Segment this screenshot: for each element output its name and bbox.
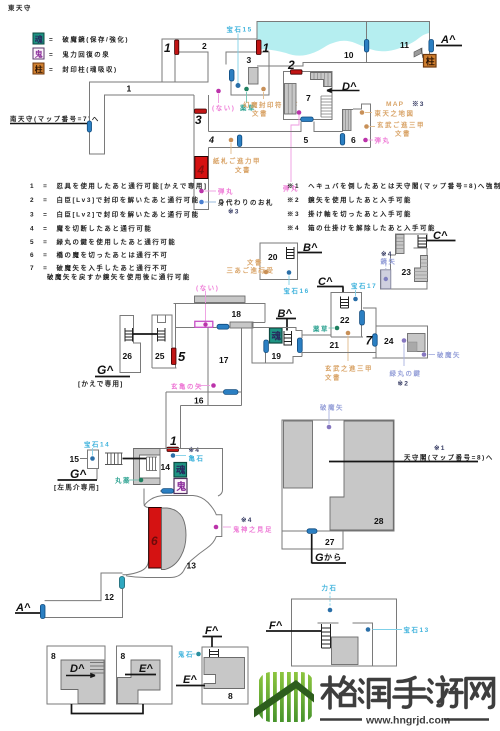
- svg-text:6 = 橋の魔を切ったあとは通行不可: 6 = 橋の魔を切ったあとは通行不可: [30, 250, 168, 259]
- room 25 small box: [158, 315, 166, 323]
- legend list left: [30, 181, 208, 281]
- legend box 鬼: [33, 48, 44, 59]
- flag icon near 柱: [414, 48, 422, 57]
- room 23 walls: [381, 234, 428, 289]
- svg-text:魂: 魂: [176, 465, 186, 477]
- gray block F room: [332, 637, 359, 665]
- svg-text:11: 11: [400, 40, 409, 50]
- svg-text:D^: D^: [70, 663, 85, 675]
- door blue 11 east: [429, 40, 434, 53]
- door blue room16: [224, 390, 239, 395]
- svg-text:身代わりのお札: 身代わりのお札: [218, 198, 274, 207]
- legend list right: [287, 181, 500, 232]
- chest block room24: [408, 334, 426, 352]
- svg-text:※2: ※2: [398, 380, 410, 388]
- svg-text:玄武之進三甲: 玄武之進三甲: [325, 364, 373, 373]
- door teal room13 left: [120, 577, 125, 589]
- watermark roof shape: [254, 680, 314, 718]
- svg-text:弾丸: 弾丸: [218, 187, 234, 196]
- bridge line 26-25: [133, 333, 157, 335]
- stairs ladder room8 F: [210, 649, 219, 660]
- door red 1 room14: [167, 447, 179, 451]
- svg-text:※4: ※4: [189, 446, 201, 454]
- door blue south exit: [87, 121, 91, 132]
- water pool rooms 10 11: [257, 22, 429, 56]
- svg-text:16: 16: [194, 396, 204, 406]
- bridge ladder 15-14: [105, 453, 123, 465]
- corridor 1 walls: [90, 39, 258, 100]
- doc dot room3: [261, 87, 266, 92]
- stairs ladder room22: [341, 297, 349, 309]
- ladder in C block: [147, 457, 158, 471]
- door blue room18 row: [217, 324, 229, 329]
- svg-text:6: 6: [151, 534, 158, 548]
- soul box room14: [174, 463, 187, 478]
- room 28 outer walls: [282, 420, 394, 549]
- room 3 walls: [226, 52, 269, 95]
- bullet dot room6: [363, 138, 368, 143]
- svg-text:3: 3: [247, 55, 252, 65]
- svg-text:= 破魔鏡(保存/強化): = 破魔鏡(保存/強化): [49, 35, 129, 44]
- svg-text:東天守: 東天守: [8, 3, 32, 12]
- svg-text:宝石15: 宝石15: [227, 25, 253, 34]
- door red 1 right: [256, 40, 261, 55]
- mirror arrow box room23: [381, 270, 391, 289]
- svg-text:A^: A^: [440, 34, 456, 46]
- svg-text:10: 10: [344, 50, 354, 60]
- svg-text:[かえで専用]: [かえで専用]: [78, 379, 124, 388]
- stair bar left room7: [285, 84, 297, 115]
- stairs ladder room25: [158, 328, 166, 342]
- F room inner walls: [318, 623, 374, 666]
- svg-text:鬼: 鬼: [176, 480, 186, 493]
- svg-text:鬼: 鬼: [35, 49, 43, 59]
- wall right edge C block: [159, 455, 161, 478]
- room 26 walls: [120, 316, 141, 373]
- svg-text:柱: 柱: [35, 64, 43, 74]
- stair bar room18 row: [230, 322, 253, 328]
- exit G^ samanosuke: [96, 469, 98, 480]
- svg-text:紙札ご進力甲: 紙札ご進力甲: [213, 156, 261, 165]
- stone dot room14: [171, 453, 176, 458]
- gray block right room28: [330, 421, 393, 530]
- staircase rungs room7: [321, 96, 332, 117]
- svg-text:※2 鏡矢を使用したあと入手可能: ※2 鏡矢を使用したあと入手可能: [287, 195, 412, 204]
- doc dot room20: [264, 270, 269, 275]
- svg-text:G^: G^: [70, 467, 86, 481]
- room 17 walls: [176, 304, 242, 406]
- svg-text:鏡矢: 鏡矢: [381, 257, 397, 266]
- dot ない room3: [216, 89, 221, 94]
- stairs hatch room8 D: [90, 663, 105, 674]
- room 13 blob outline east: [144, 496, 222, 572]
- corridor to south exit walls: [90, 100, 105, 154]
- key dot room24: [402, 338, 407, 343]
- F room outer walls: [292, 599, 397, 666]
- door blue room19 left: [264, 340, 269, 353]
- svg-text:※3 掛け軸を切ったあと入手可能: ※3 掛け軸を切ったあと入手可能: [287, 209, 412, 218]
- door blue room3: [229, 70, 234, 82]
- connector bracket rooms D-E: [72, 704, 144, 714]
- svg-text:3 = 白臣[Lv2]で封印を解いたあと通行可能: 3 = 白臣[Lv2]で封印を解いたあと通行可能: [30, 210, 200, 219]
- watermark char 润: [360, 680, 390, 708]
- svg-text:文書: 文書: [247, 258, 263, 267]
- svg-text:E^: E^: [183, 674, 197, 686]
- watermark char 网: [466, 679, 494, 708]
- room 14 walls: [160, 449, 223, 497]
- svg-text:8: 8: [121, 651, 126, 661]
- svg-text:薬草: 薬草: [312, 324, 329, 333]
- svg-text:= 封印柱(魂吸収): = 封印柱(魂吸収): [49, 65, 118, 74]
- stair bar room 6: [343, 110, 351, 131]
- svg-text:南天守(マップ番号=7)へ: 南天守(マップ番号=7)へ: [10, 114, 100, 123]
- svg-text:破魔矢を戻すか鏡矢を使用後に通行可能: 破魔矢を戻すか鏡矢を使用後に通行可能: [47, 272, 191, 281]
- door blue corridor4: [237, 135, 241, 147]
- svg-text:1: 1: [164, 41, 171, 55]
- stairs ladder room26: [125, 328, 133, 342]
- svg-text:から: から: [324, 553, 342, 562]
- gray block left room28: [284, 421, 313, 488]
- svg-text:※4: ※4: [241, 516, 253, 524]
- map dot MAP: [360, 110, 365, 115]
- svg-text:1: 1: [263, 41, 270, 55]
- door blue 7 room24: [373, 334, 378, 346]
- svg-text:26: 26: [123, 351, 133, 361]
- svg-text:5: 5: [178, 349, 186, 364]
- door magenta room18: [195, 321, 213, 327]
- svg-text:5: 5: [304, 135, 309, 145]
- svg-text:23: 23: [402, 267, 412, 277]
- gem dot 宝石13: [366, 627, 371, 632]
- blocker red box 6: [149, 508, 162, 569]
- corridor stub walls x194: [194, 95, 209, 210]
- watermark logo striped box: [254, 672, 314, 722]
- svg-text:2 = 白臣[Lv3]で封印を解いたあと通行可能: 2 = 白臣[Lv3]で封印を解いたあと通行可能: [30, 195, 200, 204]
- room 19 walls: [252, 323, 302, 364]
- room 23 inner wall: [414, 247, 428, 249]
- gray block room8 D: [61, 660, 104, 704]
- svg-text:文書: 文書: [252, 109, 268, 118]
- pill dot 丸薬: [139, 478, 144, 483]
- svg-text:21: 21: [330, 340, 340, 350]
- room 21 walls: [302, 335, 376, 353]
- corridor 5 walls: [209, 132, 371, 148]
- door blue room14 bottom: [162, 489, 174, 494]
- gray C block room14: [134, 449, 161, 485]
- room 15 box: [88, 450, 99, 469]
- svg-text:27: 27: [325, 537, 335, 547]
- soul box room19: [270, 328, 283, 343]
- arrow dot room16: [211, 383, 216, 388]
- svg-text:4: 4: [197, 163, 205, 177]
- gray block room8 F: [204, 658, 245, 689]
- room 8 D walls: [47, 646, 105, 704]
- svg-text:22: 22: [340, 315, 350, 325]
- room 10/11 outer walls: [257, 22, 430, 63]
- svg-text:弾丸: 弾丸: [375, 136, 391, 145]
- svg-text:宝石16: 宝石16: [284, 286, 310, 295]
- dot kishin room13: [214, 525, 219, 530]
- svg-text:17: 17: [219, 355, 229, 365]
- svg-text:8: 8: [51, 651, 56, 661]
- door blue room19 right: [297, 338, 302, 353]
- door blue room7 bottom: [301, 117, 314, 122]
- svg-text:力石: 力石: [322, 583, 338, 592]
- svg-text:13: 13: [187, 561, 197, 571]
- oni box room14: [174, 479, 187, 494]
- stair block top right room7: [311, 73, 332, 87]
- room 24 walls: [373, 326, 428, 358]
- bridge bar above room18: [195, 296, 246, 303]
- watermark char 格: [322, 677, 355, 708]
- door red 1 left: [175, 40, 179, 55]
- svg-text:2: 2: [202, 41, 207, 51]
- item dot 宝石15: [236, 83, 241, 88]
- svg-text:※1: ※1: [434, 444, 446, 452]
- svg-text:破魔矢: 破魔矢: [437, 350, 461, 359]
- stairs ladder room19: [284, 331, 292, 346]
- capsule block room13: [162, 508, 187, 570]
- svg-text:1: 1: [170, 434, 177, 448]
- svg-text:鬼石: 鬼石: [178, 650, 194, 659]
- svg-text:緑丸の鍵: 緑丸の鍵: [390, 369, 422, 378]
- svg-text:魂: 魂: [272, 331, 282, 343]
- room 16 walls: [166, 392, 242, 449]
- stairs block room3: [249, 68, 259, 85]
- svg-text:(ない): (ない): [212, 103, 235, 112]
- svg-text:3: 3: [195, 113, 202, 127]
- exit label Gから: [311, 534, 313, 563]
- gem leader 宝石15: [237, 34, 239, 85]
- door red 3: [195, 109, 207, 113]
- door blue corridor5 left: [340, 134, 344, 146]
- corridor 22-24 walls: [363, 308, 376, 326]
- dot bullets room7: [297, 110, 302, 115]
- svg-text:MAP ※3: MAP ※3: [386, 100, 425, 108]
- doc dot corridor4: [229, 138, 234, 143]
- svg-text:東天之地図: 東天之地図: [375, 109, 415, 118]
- svg-text:20: 20: [268, 252, 278, 262]
- svg-text:28: 28: [374, 516, 384, 526]
- svg-text:7 = 破魔矢を入手したあと通行不可: 7 = 破魔矢を入手したあと通行不可: [30, 263, 168, 272]
- svg-text:12: 12: [105, 592, 115, 602]
- room 13 blob outline west-south: [123, 508, 184, 578]
- watermark char 游: [429, 677, 463, 707]
- wall above blob: [144, 489, 149, 508]
- doc dot room6: [364, 124, 369, 129]
- line into C block: [123, 458, 147, 460]
- svg-text:文書: 文書: [395, 129, 411, 138]
- svg-text:24: 24: [384, 336, 394, 346]
- svg-text:F^: F^: [205, 625, 219, 637]
- box 柱 seal pillar: [424, 55, 437, 68]
- svg-text:※1 ヘキュバを倒したあとは天守閣(マップ番号=8)へ強制移: ※1 ヘキュバを倒したあとは天守閣(マップ番号=8)へ強制移動: [287, 181, 500, 190]
- svg-text:丸薬: 丸薬: [114, 476, 131, 485]
- stair bar room23: [396, 235, 404, 254]
- svg-text:玄武ご進三甲: 玄武ご進三甲: [377, 120, 425, 129]
- room 18 walls: [174, 304, 266, 323]
- room 6 walls: [343, 104, 371, 148]
- charm dot stub: [199, 200, 204, 205]
- room 8 E walls: [117, 646, 173, 704]
- legend box 柱: [33, 63, 44, 74]
- door red 5 room25: [171, 348, 176, 365]
- blocker red box 4: [195, 157, 208, 179]
- gem dot room20: [287, 270, 292, 275]
- watermark url line: [320, 718, 362, 721]
- svg-text:柱: 柱: [426, 56, 435, 67]
- room 20 walls: [260, 243, 298, 280]
- svg-text:1 = 忍具を使用したあと通行可能[かえで専用]: 1 = 忍具を使用したあと通行可能[かえで専用]: [30, 181, 208, 190]
- svg-text:4: 4: [208, 135, 214, 145]
- watermark char 手: [394, 678, 426, 708]
- stairs ladder C^ room23: [418, 235, 427, 248]
- tenshukaku line: [329, 461, 478, 463]
- svg-text:鬼神之見足: 鬼神之見足: [233, 525, 273, 534]
- svg-text:8: 8: [228, 691, 233, 701]
- herb dot 薬草: [244, 87, 249, 92]
- svg-text:18: 18: [232, 309, 242, 319]
- svg-text:※4 箱の仕掛けを解除したあと入手可能: ※4 箱の仕掛けを解除したあと入手可能: [287, 223, 436, 232]
- ladder F room: [322, 624, 331, 648]
- svg-text:破魔矢: 破魔矢: [320, 403, 344, 412]
- svg-text:天守閣(マップ番号=8)へ: 天守閣(マップ番号=8)へ: [404, 453, 494, 462]
- svg-text:1: 1: [127, 84, 132, 94]
- svg-text:= 鬼力回復の泉: = 鬼力回復の泉: [49, 50, 110, 59]
- svg-text:4 = 魔を切断したあと通行可能: 4 = 魔を切断したあと通行可能: [30, 224, 152, 233]
- step block room23: [415, 256, 428, 282]
- room 25 walls: [152, 315, 177, 368]
- stone dot 力石: [328, 608, 333, 613]
- svg-text:文書: 文書: [325, 373, 341, 382]
- passage below room7: [301, 122, 314, 133]
- room 2 walls: [162, 52, 208, 82]
- door red 2 on room7 top: [291, 70, 303, 74]
- svg-text:14: 14: [161, 462, 171, 472]
- svg-text:宝石14: 宝石14: [84, 440, 110, 449]
- svg-text:宝石13: 宝石13: [404, 625, 430, 634]
- room 12 walls: [45, 573, 123, 618]
- gem dot 宝石17: [353, 297, 358, 302]
- svg-text:※4: ※4: [381, 250, 393, 258]
- arrow dot room24 right: [422, 352, 427, 357]
- room 22 walls: [331, 293, 363, 338]
- svg-text:19: 19: [272, 351, 282, 361]
- doc dot room21: [346, 331, 351, 336]
- svg-text:[左馬介専用]: [左馬介専用]: [54, 483, 100, 492]
- svg-text:5 = 緑丸の鍵を使用したあと通行可能: 5 = 緑丸の鍵を使用したあと通行可能: [30, 237, 176, 246]
- svg-text:15: 15: [70, 454, 80, 464]
- door blue room27: [307, 529, 317, 534]
- door blue 10-11: [364, 40, 368, 53]
- svg-text:2: 2: [287, 58, 295, 72]
- herb dot room21: [335, 326, 340, 331]
- legend box 魂: [33, 33, 44, 44]
- door blue A exit: [40, 605, 45, 619]
- svg-text:宝石17: 宝石17: [351, 281, 377, 290]
- svg-text:6: 6: [351, 135, 356, 145]
- wall under stair bar: [230, 327, 253, 329]
- bullet dot stub: [199, 189, 204, 194]
- svg-text:※3: ※3: [228, 208, 240, 216]
- gray block room8 E: [118, 660, 161, 704]
- C^ line down to room22: [342, 287, 344, 294]
- bottom wall room10 left: [257, 63, 430, 67]
- svg-text:(ない): (ない): [196, 283, 219, 292]
- room 7 walls: [284, 72, 333, 120]
- svg-text:魂: 魂: [35, 34, 43, 44]
- svg-text:玄亀の矢: 玄亀の矢: [171, 382, 203, 391]
- stairs ladder room20: [287, 247, 295, 259]
- svg-text:G^: G^: [97, 363, 113, 377]
- room 8 F walls: [202, 647, 248, 704]
- exit line to 南天守: [10, 123, 88, 125]
- svg-text:三あご進行受: 三あご進行受: [227, 266, 275, 275]
- arrow dot room28: [327, 425, 332, 430]
- wall between 10 and 11: [366, 22, 368, 63]
- svg-text:www.hngrjd.com: www.hngrjd.com: [365, 715, 450, 727]
- svg-text:7: 7: [306, 93, 311, 103]
- svg-text:亀石: 亀石: [188, 454, 205, 463]
- svg-text:文書: 文書: [235, 165, 251, 174]
- svg-text:E^: E^: [139, 663, 153, 675]
- stone dot 鬼石: [196, 652, 201, 657]
- svg-text:25: 25: [155, 351, 165, 361]
- gem dot room15: [90, 456, 95, 461]
- door blue room22 right: [360, 311, 365, 326]
